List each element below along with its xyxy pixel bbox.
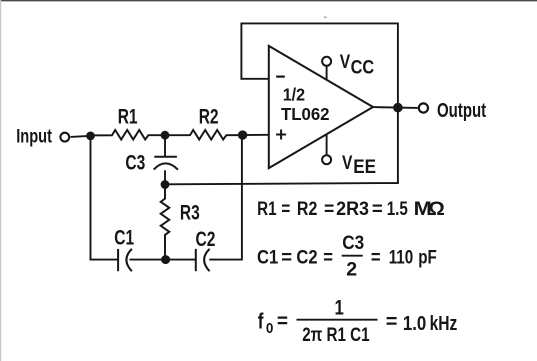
svg-text:=: = (323, 246, 333, 268)
op-amp output wire (373, 106, 418, 109)
svg-text:CC: CC (351, 56, 375, 77)
svg-text:C2: C2 (296, 246, 317, 268)
svg-text:=: = (281, 197, 290, 219)
svg-text:=: = (281, 247, 292, 269)
VEE pin stub (326, 134, 328, 155)
resistor R1 (91, 130, 164, 140)
formula C1 = C2 = C3/2 = 110 pF (257, 231, 437, 280)
input node (86, 132, 95, 141)
svg-text:=: = (371, 246, 381, 268)
svg-text:kHz: kHz (430, 312, 458, 334)
svg-text:=: = (324, 197, 334, 219)
svg-text:1.5: 1.5 (387, 197, 408, 219)
label VCC (340, 51, 375, 78)
svg-text:=: = (386, 311, 398, 333)
svg-text:C3: C3 (342, 231, 364, 253)
svg-text:2π R1 C1: 2π R1 C1 (302, 323, 370, 345)
output terminal (419, 103, 428, 112)
svg-text:f: f (258, 310, 264, 335)
svg-text:2: 2 (346, 258, 357, 280)
capacitor C1 (118, 249, 162, 271)
label VEE (342, 152, 376, 178)
VCC pin stub (326, 66, 328, 80)
svg-text:=: = (277, 310, 288, 333)
svg-text:=: = (372, 198, 383, 220)
svg-text:1/2: 1/2 (283, 85, 305, 105)
svg-text:R1: R1 (257, 197, 277, 219)
svg-text:R2: R2 (199, 104, 219, 128)
output node (393, 103, 403, 113)
svg-text:C1: C1 (114, 225, 134, 249)
feedback wire output node to inverting input (241, 23, 398, 107)
svg-text:pF: pF (418, 245, 437, 267)
svg-text:C3: C3 (125, 150, 145, 174)
node C: C3/R3 junction (161, 180, 170, 189)
input terminal (60, 133, 69, 142)
svg-text:EE: EE (353, 156, 376, 177)
svg-text:C2: C2 (196, 227, 216, 251)
wire node B down to C2 (riser) (209, 135, 242, 260)
VCC terminal (322, 57, 331, 66)
VEE terminal (322, 155, 331, 164)
node A: R1/R2/C3 junction (161, 131, 170, 140)
formula R1 = R2 = 2R3 = 1.5 Mohm (257, 197, 445, 220)
svg-text:1.0: 1.0 (403, 311, 426, 334)
svg-text:Input: Input (16, 124, 52, 147)
svg-text:V: V (340, 51, 351, 73)
resistor R2 (166, 130, 242, 140)
formula fo = 1 / (2 pi R1 C1) = 1.0 kHz (258, 297, 458, 346)
op-amp inverting input marker (276, 75, 285, 77)
capacitor C2 (170, 249, 210, 271)
svg-text:R1: R1 (118, 104, 138, 128)
wire input terminal to input node (71, 136, 91, 137)
svg-text:V: V (342, 152, 353, 174)
svg-text:Output: Output (437, 99, 486, 122)
svg-text:1: 1 (335, 297, 345, 320)
node B: R2 output / op-amp non-inverting input node (238, 130, 247, 139)
svg-text:2R3: 2R3 (336, 197, 369, 219)
svg-text:0: 0 (266, 320, 274, 337)
svg-text:C1: C1 (257, 246, 278, 268)
op-amp U1 triangle (269, 46, 373, 168)
svg-text:Ω: Ω (428, 198, 444, 219)
svg-text:R2: R2 (297, 197, 318, 219)
resistor R3 (161, 185, 170, 260)
svg-text:R3: R3 (180, 200, 200, 224)
wire node B to op-amp plus input (243, 134, 269, 136)
svg-text:110: 110 (389, 245, 414, 267)
op-amp non-inverting input marker (276, 130, 286, 140)
capacitor C3 (154, 135, 178, 184)
node D: C1/C2/R3 junction on bottom rail (161, 255, 170, 264)
wire input node down to bottom rail and to C1 (91, 136, 119, 260)
svg-text:TL062: TL062 (281, 104, 330, 124)
bootstrap wire node C to output node (165, 108, 398, 185)
